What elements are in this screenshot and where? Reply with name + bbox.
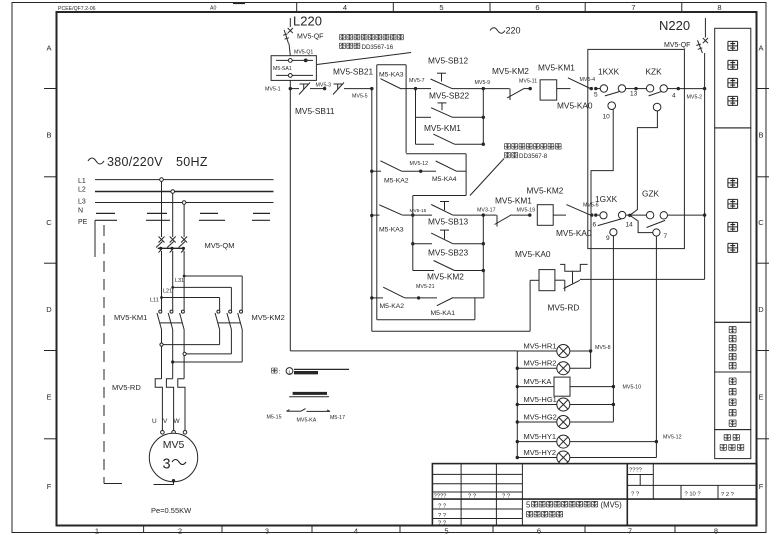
svg-text:E: E	[758, 393, 763, 402]
title block right section	[626, 464, 628, 526]
svg-text:(MV5): (MV5)	[601, 501, 623, 510]
svg-text:5: 5	[439, 3, 443, 12]
svg-text:6: 6	[535, 3, 539, 12]
svg-text:MV5-12: MV5-12	[410, 161, 429, 167]
svg-text:4: 4	[672, 93, 676, 100]
svg-text:MV5-HY2: MV5-HY2	[524, 448, 557, 457]
svg-text:MV5-9: MV5-9	[475, 80, 491, 86]
indicator lamp MV5-HG2	[516, 420, 519, 423]
svg-text:MV5-HR1: MV5-HR1	[524, 341, 557, 350]
svg-text:220: 220	[506, 25, 521, 35]
svg-text:L21: L21	[163, 289, 172, 295]
svg-text:6: 6	[537, 527, 541, 535]
svg-text:MV5-8: MV5-8	[595, 345, 611, 351]
svg-text:7: 7	[628, 527, 632, 535]
taps on poles for KM2 branch	[183, 275, 186, 278]
svg-text:MV5-12: MV5-12	[663, 435, 682, 441]
wire QF to node MV5-1	[289, 80, 291, 88]
svg-text:MV5-SB12: MV5-SB12	[428, 56, 469, 66]
svg-text:KZK: KZK	[646, 67, 663, 77]
svg-text:MV5-SB11: MV5-SB11	[295, 106, 335, 116]
indicator lamp MV5-HY1	[516, 440, 519, 443]
wire coil to KA0 contact	[557, 88, 571, 90]
svg-text:L1: L1	[78, 178, 86, 185]
svg-text:? ?: ? ?	[438, 513, 447, 519]
svg-text:8: 8	[717, 3, 721, 12]
svg-text:3: 3	[162, 457, 170, 473]
wire node6 rail down to MV5-8	[590, 215, 592, 351]
svg-text:MV5-SB22: MV5-SB22	[429, 91, 470, 101]
svg-text:? ?: ? ?	[438, 504, 447, 510]
wire parallel-group verticals rung1	[415, 89, 417, 145]
right column box 阀门开状态	[715, 322, 751, 372]
svg-text:MV5-KM2: MV5-KM2	[252, 313, 285, 322]
motor terminals	[161, 431, 165, 435]
wire KA row to circle9 wire (MV5-10)	[570, 386, 613, 388]
svg-text:M5-KA2: M5-KA2	[380, 303, 405, 310]
wire node14 to circle 7	[630, 215, 653, 232]
svg-text:M5-17: M5-17	[330, 415, 345, 421]
title block outline	[432, 464, 756, 526]
svg-text:MV5-SB13: MV5-SB13	[428, 217, 469, 227]
svg-text:? ?: ? ?	[468, 494, 477, 500]
svg-text:MV5-HG2: MV5-HG2	[524, 412, 557, 421]
svg-text:MV5-1: MV5-1	[265, 87, 281, 93]
wire L220 down to lamp rail	[289, 89, 291, 351]
svg-text:M5-15: M5-15	[267, 415, 282, 421]
svg-text:5: 5	[526, 501, 531, 510]
svg-text:F: F	[47, 482, 52, 491]
indicator lamp MV5-HR2	[516, 367, 519, 370]
wire rung1 segments	[290, 88, 299, 90]
contact M5-KA2 (lower, in box)	[370, 296, 373, 299]
breaker MV5-QM	[159, 237, 165, 243]
label ~220	[490, 28, 505, 34]
svg-text:380/220V: 380/220V	[107, 155, 163, 169]
svg-text:E: E	[46, 393, 51, 402]
svg-text:MV5: MV5	[163, 439, 185, 451]
motor ground wire	[172, 479, 175, 482]
svg-text:MV5-Q1: MV5-Q1	[294, 50, 313, 56]
node L1 tap	[160, 178, 164, 182]
svg-text:MV5-KA0: MV5-KA0	[515, 249, 551, 259]
svg-text:MV5-KA: MV5-KA	[524, 377, 552, 386]
node 14	[628, 214, 631, 217]
switch circle 7 (GZK lower)	[653, 229, 660, 236]
svg-text:MV5-5: MV5-5	[352, 94, 368, 100]
svg-text:M5-KA2: M5-KA2	[384, 178, 409, 185]
svg-text:W: W	[174, 418, 181, 425]
svg-text:DD3567-8: DD3567-8	[519, 153, 548, 160]
wire rung1 to interlock	[483, 88, 509, 90]
wire HG1 row	[570, 404, 614, 406]
KM2 output cross wires	[219, 330, 221, 345]
svg-text:N220: N220	[659, 18, 690, 33]
switch circle KZK lower	[653, 103, 661, 111]
svg-text:MV5-15: MV5-15	[410, 208, 427, 214]
svg-text:????: ????	[434, 494, 448, 500]
wire KM2aux down join	[483, 271, 485, 298]
svg-text:M5-SA1: M5-SA1	[273, 66, 292, 72]
svg-text:? 10 ?: ? 10 ?	[685, 492, 702, 498]
contact M5-KA2 + M5-KA4 rung	[370, 170, 373, 173]
svg-text:? ?: ? ?	[502, 494, 511, 500]
right column box 阀门过力矩	[715, 430, 751, 459]
svg-text:13: 13	[630, 91, 638, 98]
svg-text:3: 3	[265, 527, 269, 535]
wire circle9 down to lamps	[612, 236, 614, 422]
wire coil2 to KA0 contact	[553, 214, 566, 216]
svg-text:2: 2	[178, 527, 182, 535]
notes header	[272, 368, 278, 373]
wire HR lamps to node MV5-8	[570, 350, 591, 352]
svg-text:M5-KA4: M5-KA4	[432, 176, 457, 183]
svg-text:MV5-QF: MV5-QF	[664, 42, 690, 49]
wire left rail to KA0 coil	[372, 330, 530, 332]
svg-text:MV5-KA: MV5-KA	[297, 418, 317, 424]
wire left rail (MV5-5 down)	[371, 89, 373, 332]
svg-text:MV5-19: MV5-19	[517, 208, 536, 214]
note text ref DD3567-8	[505, 144, 511, 149]
wire KZK lower to node 14	[630, 111, 658, 215]
node L2 tap	[171, 190, 175, 194]
svg-text:MV5-RD: MV5-RD	[112, 383, 141, 392]
svg-text:? ?: ? ?	[438, 521, 447, 527]
right column box 关闭阀门	[715, 128, 751, 322]
wire circle10 to node 6	[591, 110, 613, 216]
svg-text:U: U	[152, 418, 157, 425]
wire rung2 group verticals	[412, 215, 414, 270]
svg-text:C: C	[758, 218, 764, 227]
svg-text:M5-KA1: M5-KA1	[431, 310, 456, 317]
svg-text:1: 1	[95, 527, 99, 535]
svg-text:? 2 ?: ? 2 ?	[721, 492, 735, 498]
note text ref DD3567-16	[340, 34, 346, 39]
svg-text::: :	[279, 369, 281, 376]
leader to note (right)	[470, 159, 504, 196]
svg-text:MV5-21: MV5-21	[416, 284, 435, 290]
motor MV5 3~	[149, 433, 197, 481]
wire HY1 row (MV5-12)	[570, 441, 657, 443]
svg-text:7: 7	[664, 233, 668, 240]
label ~380/220V 50HZ	[88, 158, 104, 164]
svg-text:4: 4	[354, 527, 358, 535]
svg-text:A: A	[46, 44, 51, 53]
svg-text:MV5-11: MV5-11	[519, 79, 537, 85]
svg-text:PE: PE	[78, 219, 88, 226]
switch circle 9 (1GXK lower)	[610, 229, 617, 236]
svg-text:MV5-HG1: MV5-HG1	[524, 395, 557, 404]
bottom zone ticks	[143, 526, 145, 533]
motor enclosure dashed ground line	[103, 225, 105, 484]
wire to N220 rail	[678, 88, 704, 90]
svg-text:L11: L11	[150, 298, 159, 304]
svg-text:PCEE/QF7.2-06: PCEE/QF7.2-06	[58, 6, 96, 12]
switch circle 10 (1KXK lower)	[608, 102, 616, 110]
svg-text:M5-KA3: M5-KA3	[379, 227, 404, 234]
svg-text:B: B	[758, 131, 763, 140]
svg-text:4: 4	[343, 3, 347, 12]
node 13	[634, 87, 637, 90]
svg-text:V: V	[163, 418, 168, 425]
svg-text:Pe=0.55KW: Pe=0.55KW	[151, 506, 192, 515]
svg-text:L3: L3	[78, 199, 86, 206]
svg-text:MV5-KM1: MV5-KM1	[114, 313, 147, 322]
svg-text:D: D	[46, 305, 52, 314]
svg-text:5: 5	[594, 92, 598, 99]
svg-text:GZK: GZK	[642, 189, 660, 199]
svg-text:MV5-HR2: MV5-HR2	[524, 359, 557, 368]
left zone ticks	[44, 88, 57, 90]
svg-text:10: 10	[603, 114, 611, 121]
node 4	[677, 87, 680, 90]
top zone ticks	[296, 3, 298, 13]
svg-text:? ?: ? ?	[631, 492, 640, 498]
right column box 开启阀门	[715, 28, 751, 128]
svg-text:7: 7	[631, 3, 635, 12]
valve switch box outline	[588, 49, 685, 248]
svg-text:MV5-7: MV5-7	[409, 78, 425, 84]
svg-text:MV5-KM1: MV5-KM1	[424, 123, 461, 133]
wire KA1 rung return to box bottom	[474, 298, 476, 320]
svg-text:MV5-KM2: MV5-KM2	[492, 66, 529, 76]
svg-text:MV5-HY1: MV5-HY1	[524, 432, 557, 441]
pushbutton MV5-SB11 (NC)	[300, 83, 309, 85]
svg-text:MV5-SB23: MV5-SB23	[428, 248, 469, 258]
external-contact box outline	[377, 64, 406, 66]
right column box 阀门关状态	[715, 372, 751, 430]
indicator lamp MV5-HY2	[516, 456, 519, 459]
svg-text:N: N	[78, 208, 83, 215]
svg-text:9: 9	[606, 235, 610, 242]
svg-text:MV5-10: MV5-10	[623, 385, 642, 391]
lamp rail vertical	[516, 351, 518, 458]
svg-text:MV5-QF: MV5-QF	[297, 34, 323, 41]
svg-text:L220: L220	[293, 14, 322, 29]
svg-text:MV5-SB21: MV5-SB21	[333, 67, 374, 77]
svg-text:14: 14	[626, 222, 634, 229]
title block horizontals (left)	[432, 473, 522, 475]
svg-text:MV5-KM2: MV5-KM2	[427, 272, 464, 282]
indicator lamp MV5-HG1	[516, 403, 519, 406]
note legend bar 1	[294, 368, 349, 370]
pushbutton MV5-SB21 (NC)	[334, 83, 343, 85]
wire HY2 row	[570, 457, 657, 459]
svg-text:MV5-RD: MV5-RD	[548, 303, 580, 313]
node 5 dots	[590, 87, 593, 90]
svg-text:A0: A0	[210, 6, 216, 12]
svg-text:MV5-KA0: MV5-KA0	[556, 228, 592, 238]
node L3 tap	[182, 201, 186, 205]
svg-text:1GXK: 1GXK	[595, 194, 618, 204]
node on rail (row1)	[703, 87, 706, 90]
relay coil MV5-KA	[516, 385, 519, 388]
note legend bar 2	[293, 392, 327, 395]
wire HG2 row	[570, 421, 614, 423]
svg-text:L31: L31	[175, 278, 184, 284]
node 6 dots	[590, 213, 593, 216]
svg-text:L2: L2	[78, 187, 86, 194]
wire N220 rail	[704, 53, 706, 279]
top strip dash	[233, 3, 245, 5]
svg-text:1KXK: 1KXK	[598, 67, 620, 77]
svg-text:5: 5	[444, 527, 448, 535]
svg-text:6: 6	[593, 222, 597, 229]
svg-text:A: A	[758, 44, 763, 53]
node MV5-5	[370, 87, 373, 90]
svg-text:????: ????	[629, 468, 643, 474]
svg-text:MV5-QM: MV5-QM	[205, 241, 235, 250]
svg-text:MV5-KM1: MV5-KM1	[495, 196, 532, 206]
wire rung2 to interlock	[483, 214, 496, 216]
svg-text:D: D	[758, 305, 764, 314]
title block verticals (left)	[460, 464, 462, 526]
svg-text:M5-KA3: M5-KA3	[379, 72, 404, 79]
node on rail (row2)	[703, 213, 706, 216]
leader to note (top)	[317, 53, 411, 65]
PE drop wire	[94, 220, 96, 257]
svg-text:MV5-KM1: MV5-KM1	[538, 63, 575, 73]
contact M5-KA3 (rung2, in box)	[370, 214, 373, 217]
svg-text:8: 8	[714, 527, 718, 535]
title text 控制原理图	[527, 511, 533, 517]
svg-text:MV3-17: MV3-17	[477, 208, 496, 214]
wire circle7 down to lamps	[655, 236, 657, 457]
svg-text:DD3567-16: DD3567-16	[362, 44, 394, 51]
wire box-right to group (Z link)	[406, 153, 466, 155]
svg-text:MV5-KM2: MV5-KM2	[527, 186, 564, 196]
svg-text:50HZ: 50HZ	[176, 155, 208, 169]
svg-text:MV5-2: MV5-2	[687, 95, 703, 101]
svg-text:C: C	[46, 218, 52, 227]
svg-text:F: F	[759, 482, 764, 491]
svg-text:B: B	[46, 131, 51, 140]
right zone ticks	[757, 88, 770, 90]
